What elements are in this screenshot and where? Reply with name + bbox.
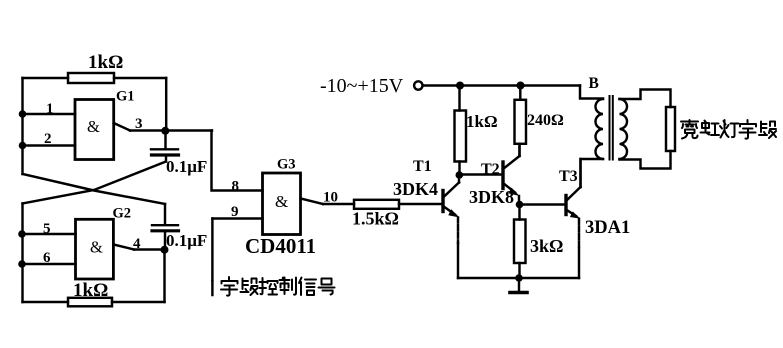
svg-text:-10~+15V: -10~+15V bbox=[320, 75, 404, 97]
wire R3 to T1 base bbox=[399, 203, 443, 205]
svg-text:3DK4: 3DK4 bbox=[393, 179, 438, 199]
wire output pin 4 slant bbox=[113, 245, 134, 250]
transformer B secondary winding bbox=[620, 99, 628, 159]
svg-text:3DA1: 3DA1 bbox=[585, 218, 630, 238]
wire feedback drop to node 3 bbox=[165, 78, 167, 130]
svg-text:1kΩ: 1kΩ bbox=[466, 112, 498, 131]
wire node4 drop bbox=[163, 250, 165, 302]
svg-text:3DK8: 3DK8 bbox=[469, 187, 514, 207]
霓 bbox=[681, 120, 698, 139]
wire 3k bottom stub bbox=[518, 263, 520, 278]
svg-text:G1: G1 bbox=[116, 89, 135, 105]
svg-text:1kΩ: 1kΩ bbox=[73, 280, 108, 301]
transistor Q1 T1 3DK4 bbox=[443, 175, 460, 218]
resistor R5 240Ω (collector T2) bbox=[515, 100, 527, 144]
wire T3 emitter drop bbox=[578, 219, 580, 248]
svg-text:1kΩ: 1kΩ bbox=[88, 52, 123, 73]
svg-text:9: 9 bbox=[231, 204, 239, 220]
wire node to T3 base bbox=[520, 203, 567, 205]
wire G2 bottom feedback right bbox=[112, 301, 165, 303]
wire input pin 2 bbox=[23, 144, 76, 146]
junction on rail pin5 bbox=[18, 230, 26, 238]
node T2 emitter junction bbox=[516, 201, 524, 209]
label 霓虹灯字段 (neon light segment), hand-drawn strokes bbox=[681, 120, 776, 139]
svg-text:0.1μF: 0.1μF bbox=[166, 231, 207, 250]
wire primary bottom bbox=[581, 159, 604, 187]
gate U1 G3 (NAND) bbox=[263, 173, 301, 235]
wire G1 top feedback left bbox=[23, 77, 69, 79]
wire input pin 1 bbox=[23, 113, 76, 115]
svg-text:G2: G2 bbox=[113, 206, 132, 222]
wire cross diagonal from G1 rail to C2 bbox=[23, 174, 166, 204]
svg-text:T1: T1 bbox=[413, 158, 432, 175]
控 bbox=[260, 278, 278, 295]
wire pin 9 drop (faded in scan) bbox=[211, 219, 213, 281]
junction on rail pin6 bbox=[18, 260, 26, 268]
wire 3k top stub bbox=[518, 205, 520, 220]
wire pin10 to R3 bbox=[323, 203, 354, 205]
svg-text:6: 6 bbox=[43, 250, 51, 266]
svg-text:T2: T2 bbox=[481, 161, 500, 178]
resistor R3 1.5kΩ bbox=[354, 200, 399, 209]
制 bbox=[280, 278, 297, 295]
wire input pin 5 bbox=[23, 233, 76, 235]
wire rail corner to transformer bbox=[580, 86, 603, 99]
transformer B primary winding bbox=[596, 99, 604, 159]
junction rail R4 bbox=[456, 82, 464, 90]
svg-text:3kΩ: 3kΩ bbox=[530, 236, 563, 256]
wire output 3 to node bbox=[130, 129, 212, 131]
wire C2 bottom stub bbox=[164, 232, 166, 249]
label 字段控制信号 (segment control signal), hand-drawn strokes bbox=[221, 277, 335, 296]
gate U1 G2 (NAND) bbox=[76, 219, 114, 279]
node T1 collector junction bbox=[456, 171, 464, 179]
wire node3 to pin 8 bbox=[212, 131, 263, 191]
junction on rail pin1 bbox=[19, 110, 27, 118]
capacitor C2 0.1μF bbox=[152, 224, 178, 226]
svg-text:&: & bbox=[87, 117, 100, 136]
wire G2 bottom feedback left bbox=[23, 301, 69, 303]
resistor R1 1kΩ (G1 feedback) bbox=[68, 73, 114, 83]
wire T1 emitter drop bbox=[457, 218, 459, 244]
node 3 junction bbox=[161, 127, 169, 135]
wire pin 9 bbox=[212, 217, 262, 219]
node ground junction bbox=[515, 274, 523, 282]
svg-text:CD4011: CD4011 bbox=[245, 234, 316, 258]
svg-text:1.5kΩ: 1.5kΩ bbox=[352, 209, 399, 229]
wire output pin 10 slant bbox=[301, 199, 324, 205]
svg-text:8: 8 bbox=[232, 179, 240, 195]
灯 bbox=[720, 120, 739, 138]
svg-text:2: 2 bbox=[44, 131, 52, 147]
wire C2 top stub bbox=[164, 204, 166, 224]
wire G1 left rail bbox=[21, 78, 23, 174]
transistor Q3 T3 3DA1 bbox=[566, 159, 581, 219]
power terminal -10~+15V bbox=[414, 81, 422, 89]
wire secondary top to neon bbox=[620, 90, 671, 108]
wire neon bottom to secondary bbox=[620, 151, 671, 169]
wire R4 bottom stub bbox=[458, 162, 460, 176]
信 bbox=[299, 278, 316, 296]
字 bbox=[221, 277, 238, 296]
wire power rail bbox=[423, 84, 580, 86]
transformer core bbox=[609, 96, 611, 160]
wire C1 bottom stub bbox=[165, 157, 167, 162]
svg-text:1: 1 bbox=[46, 101, 54, 117]
svg-text:G3: G3 bbox=[277, 157, 296, 173]
wire bottom rail bbox=[458, 277, 579, 279]
svg-text:5: 5 bbox=[43, 221, 51, 237]
wire G2 left rail bbox=[21, 204, 23, 303]
transistor Q2 T2 3DK8 bbox=[503, 144, 520, 196]
resistor R6 3kΩ bbox=[514, 220, 526, 264]
svg-text:B: B bbox=[589, 75, 599, 92]
wire C1 top stub bbox=[164, 131, 166, 148]
虹 bbox=[701, 121, 720, 136]
字 bbox=[740, 120, 757, 139]
wire T2 emitter to node bbox=[518, 196, 520, 205]
wire G1 top feedback right bbox=[114, 77, 166, 79]
capacitor C1 0.1μF bbox=[151, 148, 178, 150]
svg-text:240Ω: 240Ω bbox=[527, 112, 564, 129]
wire R4 top stub bbox=[458, 86, 460, 111]
wire input pin 6 bbox=[23, 263, 76, 265]
node 4 junction bbox=[161, 246, 169, 254]
neon lamp segment bbox=[666, 107, 675, 151]
svg-text:&: & bbox=[90, 238, 103, 257]
wire output pin 3 slant bbox=[114, 123, 130, 131]
resistor R2 1kΩ (G2 feedback) bbox=[68, 298, 112, 307]
wire R5 bottom stub bbox=[518, 144, 520, 156]
ground bbox=[518, 278, 520, 292]
resistor R4 1kΩ (collector T1) bbox=[455, 111, 467, 162]
wire R5 top stub bbox=[519, 86, 521, 100]
junction rail R5 bbox=[517, 82, 525, 90]
svg-text:0.1μF: 0.1μF bbox=[166, 157, 207, 176]
gate U1 G1 (NAND) bbox=[75, 100, 114, 160]
wire output 4 to node bbox=[134, 248, 165, 250]
wire cross diagonal from C1 to G2 rail bbox=[23, 162, 167, 204]
wire T1 collector to T2 base bbox=[459, 173, 503, 175]
svg-text:T3: T3 bbox=[559, 168, 578, 185]
号 bbox=[319, 279, 335, 295]
段 bbox=[241, 279, 258, 296]
junction on rail pin2 bbox=[19, 142, 27, 150]
svg-text:&: & bbox=[275, 192, 288, 211]
段 bbox=[759, 122, 776, 139]
